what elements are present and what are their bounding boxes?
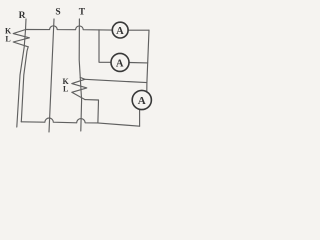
svg-text:A: A [138, 95, 146, 107]
svg-text:L: L [63, 85, 68, 94]
svg-text:R: R [19, 11, 26, 21]
svg-text:A: A [116, 58, 124, 69]
ammeter A2 circle [111, 53, 129, 71]
wire junction J1 down to ammeter A2 [99, 30, 111, 63]
svg-text:S: S [55, 7, 60, 17]
svg-text:L: L [5, 35, 10, 44]
wire A2 to right bus [129, 62, 148, 64]
ammeter A1 circle [112, 22, 128, 38]
CT CT1 zigzag on R phase [13, 30, 29, 47]
phase line R [17, 19, 26, 127]
wire CT2 K terminal to right bus [85, 79, 147, 82]
right bus (A1,A2,CT2-K common) down to A3 [147, 30, 149, 91]
wire CT2 L terminal down to bottom bus [85, 100, 99, 123]
wire A1 to right bus [128, 29, 149, 31]
wire A3 bottom to bus [139, 110, 141, 127]
phase line S [49, 19, 54, 132]
wire CT1 L terminal to bottom bus [21, 47, 28, 122]
wire CT1 K terminal to ammeter A1 (hops over S and T) [26, 26, 112, 30]
paper background [0, 0, 162, 145]
phase line T [79, 19, 81, 131]
CT CT2 zigzag on T phase [72, 77, 87, 99]
ammeter A3 circle [132, 90, 151, 109]
bottom return bus (hops over S and T) [21, 118, 139, 126]
svg-text:T: T [79, 8, 86, 18]
svg-text:A: A [116, 26, 124, 37]
